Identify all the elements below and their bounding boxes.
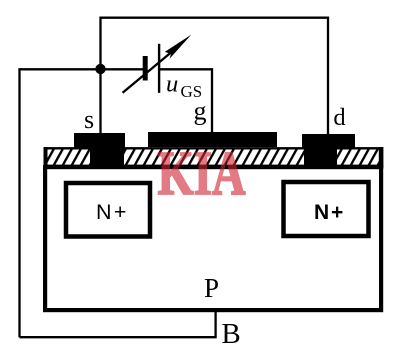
svg-text:N+: N+	[314, 201, 345, 224]
svg-text:P: P	[204, 273, 219, 303]
svg-text:s: s	[84, 105, 94, 134]
svg-text:KIA: KIA	[158, 140, 246, 208]
svg-text:GS: GS	[181, 82, 203, 101]
svg-text:N+: N+	[96, 200, 129, 224]
svg-text:B: B	[221, 318, 240, 350]
svg-text:d: d	[333, 104, 345, 131]
svg-text:u: u	[166, 71, 178, 98]
